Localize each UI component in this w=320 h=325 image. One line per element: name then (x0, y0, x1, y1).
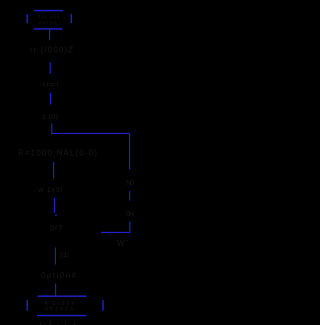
svg-text:ll²?: ll²? (50, 224, 63, 233)
svg-text:w 1x3l: w 1x3l (37, 185, 62, 194)
svg-text:0H: 0H (126, 209, 134, 218)
node END top edge (37, 295, 86, 297)
wire B (49, 62, 51, 74)
wire F (53, 198, 55, 213)
wire E (53, 162, 55, 179)
wire C (49, 93, 51, 105)
svg-text:W˝: W˝ (117, 239, 129, 248)
wire G (54, 248, 56, 265)
svg-text:N0: N0 (126, 178, 134, 187)
wire right branch middle (129, 191, 131, 201)
node START left edge (26, 14, 28, 23)
node START bottom edge (34, 28, 63, 30)
node END right edge (102, 300, 104, 311)
svg-text:R=1000:NAL(0-0): R=1000:NAL(0-0) (18, 149, 97, 158)
wire right branch upper (129, 133, 131, 169)
node START right edge (70, 14, 72, 23)
svg-text:r-1 . r-1.: r-1 . r-1. (40, 320, 80, 325)
wire F arrowhead dot (55, 214, 57, 216)
svg-text:715-d38: 715-d38 (38, 15, 60, 21)
svg-text:24/: 24/ (59, 253, 69, 260)
node START top edge (34, 10, 63, 12)
svg-text:z (0): z (0) (42, 112, 59, 121)
node START ellipse outline (faint full curve) (27, 10, 71, 29)
wire tee branch to right (51, 132, 129, 134)
wire D (51, 123, 53, 134)
wire right branch lower (129, 222, 131, 233)
wire A (49, 30, 51, 41)
node END ellipse outline (faint full curve) (27, 296, 103, 316)
node END left edge (26, 300, 28, 311)
wire right branch return left (101, 231, 130, 233)
svg-text:0pti0n#: 0pti0n# (41, 271, 77, 280)
node END bottom edge (37, 315, 87, 317)
wire H (55, 284, 57, 296)
